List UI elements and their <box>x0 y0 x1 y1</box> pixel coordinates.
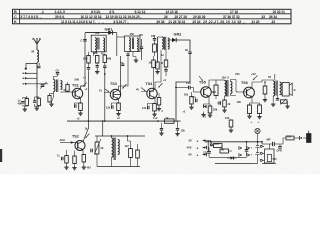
wire osc top <box>54 77 58 80</box>
ground under R6 <box>96 70 98 72</box>
battery cell mark <box>299 136 301 140</box>
wire GR2 anode <box>168 39 173 41</box>
resistor R33 lower column <box>157 98 161 106</box>
voltage arrow at TS6 <box>253 76 258 81</box>
wire pot bottom <box>96 154 98 167</box>
switch contact 1 <box>25 72 27 74</box>
table tick marks row3 <box>61 22 63 24</box>
wire top rail left <box>85 32 109 34</box>
antenna coil L1 <box>37 50 39 62</box>
resistor R24 at lamp column <box>229 120 233 127</box>
resistor R31 TS4 emitter <box>153 104 157 112</box>
wire TS1 base <box>61 91 76 93</box>
wire R21 R22 bottom <box>130 158 132 167</box>
junction dots on upper rail <box>88 120 90 122</box>
wire T1 primary bottom <box>93 52 95 56</box>
ground under R24 <box>230 129 232 131</box>
wire to TS5 base <box>190 87 193 89</box>
capacitor C23 <box>153 38 156 40</box>
wire TS4 collector <box>155 50 161 90</box>
capacitor C30 TS3 emitter <box>111 105 113 108</box>
wire TS2 base from left <box>74 142 78 144</box>
voltage arrow at TS3 base <box>105 89 110 93</box>
resistor R25 on supply <box>214 144 223 148</box>
resistor R27 <box>286 136 294 140</box>
ground under C17 <box>161 132 163 134</box>
ground under R33 <box>158 107 160 109</box>
ground under T5 <box>272 103 274 105</box>
capacitor C15 <box>61 157 63 161</box>
ground under R18 <box>66 166 68 168</box>
output transformer T5 core <box>275 81 277 96</box>
ground under R14 <box>249 115 251 117</box>
capacitor C22 <box>278 146 282 148</box>
ground under TS5 <box>209 114 211 116</box>
wire TS1 emitter <box>80 98 82 103</box>
wire GR2 to right <box>176 40 190 52</box>
loudspeaker <box>282 83 289 97</box>
oscillator coil S1 winding b <box>61 81 63 90</box>
resistor R35 at TS6 collector <box>263 86 267 94</box>
wire battery bottom <box>250 163 258 165</box>
transistor TS1 <box>72 88 82 98</box>
wire detector to volume rail <box>176 82 190 121</box>
paper grain overlay <box>0 0 320 174</box>
wire TS6 collector <box>252 82 262 88</box>
wire TS5 collector <box>209 80 213 88</box>
bottom rail right <box>262 163 276 165</box>
resistor R15 under TS6 <box>258 105 262 114</box>
IF transformer T3 secondary <box>168 38 169 49</box>
wire rail drop <box>102 121 104 136</box>
wire box top <box>269 144 271 149</box>
resistor R13 driver <box>214 85 218 96</box>
capacitor C26 on T2 right leg <box>140 46 143 48</box>
capacitor C19 <box>207 151 211 153</box>
resistor R23 in series on rail <box>165 119 175 123</box>
ground under C18b <box>177 132 179 134</box>
wire to R27 <box>280 143 287 145</box>
wire T3 left <box>158 36 163 38</box>
wire TS1 collector <box>81 33 86 90</box>
wire GR3 branch <box>204 104 210 107</box>
tuning capacitor C2 <box>41 84 45 86</box>
ground under R35 <box>264 98 266 100</box>
wire R1 top <box>23 98 27 100</box>
voltage arrow at TS4 base <box>141 88 146 92</box>
driver transformer T4 primary <box>225 81 227 96</box>
capacitor C12 <box>188 51 191 53</box>
wire TS2 collector diagonal <box>83 121 89 141</box>
resistor R17 TS2 emitter <box>82 155 86 163</box>
capacitor C6 under TS1 <box>74 104 76 108</box>
wire T2 bottom <box>127 52 129 55</box>
oscillator coil core <box>56 80 58 93</box>
IF transformer T3 core <box>164 37 166 50</box>
capacitor C3 <box>21 101 24 103</box>
IF transformer T1 primary <box>95 38 96 53</box>
resistor R1 <box>25 99 28 106</box>
diode GR4 <box>231 156 234 159</box>
electrolytic C21 NP <box>272 142 274 146</box>
coupling bracket wire <box>26 64 37 69</box>
capacitor C16 at pot <box>90 149 92 153</box>
resistor R12 under TS5 <box>208 106 212 113</box>
wire T2 left <box>117 36 125 38</box>
terminal circle 1 <box>260 145 262 147</box>
resistor R3 at TS1 <box>66 85 69 92</box>
oscillator coil S1 winding a <box>54 80 56 92</box>
resistor R29 on T3 left leg <box>156 62 159 69</box>
wire top rail right <box>112 32 117 34</box>
mid rail wire <box>95 135 145 137</box>
junction dots mid rail <box>111 135 113 137</box>
ground under R29 <box>157 70 159 72</box>
voltage arrow at TS1 <box>83 83 87 87</box>
IF transformer T3 windings <box>162 37 164 49</box>
wire T2 right down <box>141 39 143 47</box>
ground under R15 <box>259 115 261 117</box>
capacitor C20 <box>245 149 249 151</box>
terminal circle 2 <box>260 152 262 154</box>
capacitor C28 on TS3 base line <box>121 63 124 65</box>
driver transformer T4 secondary <box>231 82 233 94</box>
AGC arrow to TS2 <box>60 142 74 144</box>
voltage arrow at TS2 <box>86 134 90 139</box>
IF transformer T2 secondary <box>137 38 138 52</box>
transistor TS2 <box>75 141 85 151</box>
ground under TS1 <box>80 112 82 114</box>
IF transformer T1 can <box>91 35 106 52</box>
wire T5 bottom <box>272 96 274 102</box>
upper rail wire <box>67 120 181 122</box>
driver transformer T4 core <box>226 80 228 97</box>
voltage arrow at TS4 <box>159 83 163 88</box>
ground under R2 <box>35 104 39 107</box>
supply rail wire <box>205 141 262 143</box>
resistor R14 under TS6 <box>248 105 252 114</box>
diode GR3 <box>204 105 207 108</box>
wire TS4 base <box>150 86 154 92</box>
transistor TS4 <box>147 88 157 98</box>
IF transformer T2 core <box>131 38 133 50</box>
ground osc <box>51 103 53 105</box>
earphone jack <box>307 134 312 143</box>
ground TS3 emitter <box>118 112 120 114</box>
capacitor C9 under R7 <box>103 65 106 67</box>
battery cell pair a <box>238 146 240 149</box>
ground under R32 <box>224 109 226 111</box>
wire antenna to tuner <box>36 62 38 88</box>
junction dot detector tap <box>175 87 177 89</box>
interstage transformer T6 core <box>113 138 115 161</box>
capacitor C10 <box>126 53 129 55</box>
osc lower components <box>48 96 51 103</box>
wire R7 column to rail <box>104 68 106 122</box>
diode GR2 <box>172 38 176 42</box>
capacitor C7 on line x85 <box>83 39 86 41</box>
wire tuner node <box>35 97 37 101</box>
trimmer capacitor C1 <box>37 65 40 67</box>
IF transformer T1 core <box>97 38 99 50</box>
capacitor C13 <box>188 86 190 90</box>
wire T5 top <box>262 74 275 82</box>
capacitor C14 under T5 <box>276 98 279 100</box>
capacitor C31 TS4 emitter <box>147 106 149 109</box>
capacitor C25 under T4 <box>218 101 220 104</box>
resistor R9 mid column <box>164 60 168 67</box>
wire TS6 base <box>236 91 247 93</box>
voltage arrow at TS5 <box>199 76 203 81</box>
antenna <box>36 44 38 50</box>
wire TS5 emitter <box>208 96 210 104</box>
resistor R4 under TS1 <box>79 103 83 111</box>
resistor R2 <box>37 98 40 106</box>
ground under R17 <box>83 166 85 168</box>
volume pot R20 <box>95 142 99 154</box>
ground under R19 <box>74 166 76 168</box>
contact blob <box>25 68 27 70</box>
wire to TS3 base <box>113 56 121 95</box>
resistor R6 <box>95 56 99 64</box>
resistor R5 <box>87 56 91 64</box>
junction dot R7 column <box>104 73 106 75</box>
switch box S2 <box>265 149 275 163</box>
wire T4 primary bottom <box>224 96 226 100</box>
capacitor C27 under R6 <box>96 65 99 67</box>
wire tuner down <box>36 88 38 97</box>
capacitor C17 <box>160 128 163 130</box>
wire T6 top <box>111 136 113 138</box>
wire TS3 emitter <box>118 99 120 103</box>
capacitor C8 under R5 <box>87 67 90 69</box>
terminal circle 3 <box>260 159 262 161</box>
wire T3 secondary down <box>165 50 167 60</box>
resistor R7 <box>103 55 107 63</box>
resistor R21 <box>129 149 133 158</box>
scan smudge left edge <box>0 149 2 162</box>
ground under R11 <box>191 106 193 108</box>
capacitor C11 mid column <box>164 69 167 71</box>
supply row connector <box>207 141 209 152</box>
resistor R19 <box>73 156 77 164</box>
resistor R34 under C23 <box>153 44 157 52</box>
diode GR1 <box>108 30 112 35</box>
transistor TS6 <box>244 87 255 98</box>
wire TS6 emitter <box>251 97 253 103</box>
switch contact 3 <box>25 83 27 85</box>
transistor TS3 <box>110 89 120 99</box>
wire TS3 collector <box>119 56 129 91</box>
capacitor C24 bias <box>195 99 197 102</box>
capacitor C18b <box>176 128 179 130</box>
wire lamp down <box>257 134 259 142</box>
resistor R8 TS4 base chain <box>152 60 156 68</box>
resistor R18 <box>65 156 69 164</box>
resistor R32 under T4 <box>223 100 227 107</box>
junction dots on supply rail <box>210 141 212 143</box>
voltage arrow at TS3 <box>123 84 127 89</box>
bottom rail segment <box>209 157 247 159</box>
wire speaker terminals <box>280 84 283 86</box>
wire rail to NP <box>261 141 263 143</box>
resistor R28 inside box <box>267 155 271 162</box>
resistor R30 TS3 emitter <box>117 103 121 111</box>
wire T4 primary top <box>216 79 225 81</box>
table tick marks row2 <box>20 17 22 19</box>
wire IF1 secondary to R7 <box>102 52 105 55</box>
wire NP node <box>261 142 263 144</box>
bottom rail wire <box>97 166 140 168</box>
battery cell pair b <box>246 146 248 149</box>
transistor TS5 <box>201 87 212 98</box>
IF transformer T2 primary <box>129 38 130 52</box>
pilot lamp <box>255 128 260 133</box>
capacitor C5 <box>56 72 59 74</box>
resistor R26 on supply <box>220 149 229 153</box>
battery cells column <box>256 145 259 147</box>
IF transformer T1 secondary <box>103 38 104 52</box>
arrow across R16 <box>281 99 287 105</box>
resistor R16 under T5 <box>281 100 288 103</box>
ground TS4 emitter <box>154 113 156 115</box>
wire T4 secondary to TS6 <box>231 80 237 82</box>
resistor R22 <box>136 150 140 158</box>
output transformer T5 primary <box>273 81 275 96</box>
table tick marks row1 <box>41 12 43 13</box>
wire T6 bottom <box>111 157 113 166</box>
alignment table frame <box>13 9 292 23</box>
ground under C3 <box>24 108 26 110</box>
wire TS4 emitter <box>154 98 156 104</box>
interstage transformer T6 secondary <box>118 140 120 155</box>
wire down from C12 <box>189 54 191 83</box>
output transformer T5 secondary <box>280 82 282 95</box>
wire osc bottom <box>53 92 55 98</box>
resistor R11 bias <box>190 97 194 105</box>
interstage transformer T6 primary <box>112 138 114 157</box>
wire TS2 emitter <box>82 150 84 155</box>
capacitor C4 <box>33 100 36 102</box>
switch contact 2 <box>25 77 27 79</box>
IF transformer T2 can <box>125 36 141 52</box>
